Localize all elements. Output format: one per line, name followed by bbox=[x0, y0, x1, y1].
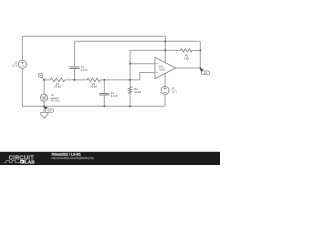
wire op-amp output bbox=[176, 67, 201, 69]
wire C2 top lead bbox=[103, 80, 105, 93]
capacitor C2 bbox=[99, 94, 109, 96]
node ground rail R3 junction bbox=[129, 105, 131, 107]
node output corner bbox=[199, 67, 201, 69]
wire ground flag stem bbox=[43, 106, 45, 112]
wire below R3 to ground rail bbox=[129, 94, 131, 107]
node ground rail C2 junction bbox=[103, 105, 105, 107]
ground flag arrow bbox=[44, 107, 48, 110]
voltage source V1 bbox=[18, 60, 26, 68]
wire row segment R1 to R2 bbox=[65, 79, 87, 81]
svg-text:20 kΩ: 20 kΩ bbox=[54, 85, 61, 89]
wire right vertical down to output node bbox=[199, 41, 201, 68]
node ground rail V2 junction bbox=[43, 105, 45, 107]
wire row segment R2 to plus corner bbox=[100, 79, 139, 81]
svg-text:TL081: TL081 bbox=[158, 69, 165, 72]
wire bottom ground rail bbox=[22, 105, 165, 107]
svg-text:3.9 nF: 3.9 nF bbox=[111, 94, 119, 98]
CircuitLab logo bbox=[4, 156, 35, 165]
svg-text:out: out bbox=[204, 72, 208, 75]
wire R5 feedback line left part bbox=[130, 49, 181, 51]
ground label box GND bbox=[45, 109, 53, 112]
wire minus input line bbox=[130, 63, 155, 65]
wire C1 top line bbox=[75, 40, 166, 42]
svg-text:1 kΩ: 1 kΩ bbox=[184, 57, 189, 61]
op-amp OA1 bbox=[155, 57, 176, 78]
node A row input junction bbox=[43, 79, 45, 81]
resistor R3 vertical bbox=[128, 87, 131, 94]
svg-text:http://circuitlab.com/c/hg82q6: http://circuitlab.com/c/hg82q6hp7u2 bbox=[52, 156, 95, 160]
wire J1 to right corner bbox=[165, 40, 200, 42]
svg-text:12 V: 12 V bbox=[172, 89, 178, 93]
node C2-row junction bbox=[103, 79, 105, 81]
wire row segment node to R1 bbox=[44, 79, 50, 81]
output label box out bbox=[201, 71, 209, 75]
resistor R2 bbox=[87, 78, 100, 82]
node minus input junction bbox=[129, 63, 131, 65]
svg-text:LAB: LAB bbox=[25, 160, 35, 165]
input terminal circle bbox=[38, 73, 42, 77]
svg-text:GND: GND bbox=[47, 111, 52, 113]
wire V2 bottom lead bbox=[43, 101, 45, 106]
capacitor C1 bbox=[69, 67, 79, 69]
wire C2 bottom lead bbox=[103, 96, 105, 107]
wire V2 top lead bbox=[43, 80, 45, 94]
svg-text:24 nF: 24 nF bbox=[81, 68, 88, 72]
wire V1 bottom lead bbox=[21, 68, 23, 106]
wire op-amp V- supply stub to V3 bbox=[164, 73, 166, 86]
svg-text:4V (3 k): 4V (3 k) bbox=[51, 98, 60, 102]
resistor R5 feedback bbox=[181, 49, 193, 52]
wire C1 top lead bbox=[74, 41, 76, 66]
resistor R1 bbox=[50, 78, 64, 82]
node J1 bbox=[164, 40, 166, 42]
wire inverting-input vertical branch bbox=[129, 50, 131, 86]
node C1-row junction bbox=[74, 79, 76, 81]
node R5-output junction bbox=[199, 50, 201, 52]
ground symbol bbox=[41, 112, 48, 118]
node R3-row junction bbox=[129, 79, 131, 81]
wire top rail from V1 to feedback corner bbox=[22, 35, 165, 37]
wire input terminal diagonal bbox=[42, 77, 44, 80]
watermark bar bbox=[0, 152, 220, 165]
wire C1 bottom lead bbox=[74, 69, 76, 80]
output flag arrow bbox=[200, 68, 204, 71]
wire R5 feedback line right part bbox=[192, 49, 200, 51]
node J2 bbox=[164, 50, 166, 52]
wire op-amp V+ supply stub bbox=[164, 41, 166, 63]
svg-text:10 kΩ: 10 kΩ bbox=[134, 90, 141, 94]
wire V3 bottom lead to rail bbox=[164, 94, 166, 106]
svg-text:12 V: 12 V bbox=[12, 63, 18, 67]
voltage source V3 bbox=[161, 86, 169, 94]
wire corner down into node J1 bbox=[164, 36, 166, 41]
svg-text:20 kΩ: 20 kΩ bbox=[90, 85, 97, 89]
wire plus input step bbox=[140, 73, 155, 80]
signal generator V2 bbox=[41, 94, 48, 101]
svg-text:Simon222 / LS-B1: Simon222 / LS-B1 bbox=[52, 152, 82, 156]
wire V1 top lead bbox=[21, 36, 23, 60]
